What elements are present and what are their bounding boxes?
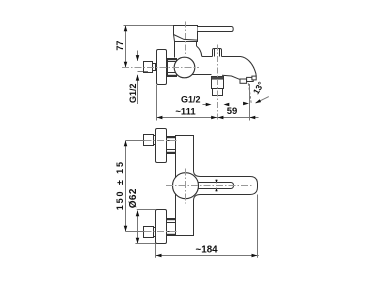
svg-text:G1/2: G1/2 <box>181 95 201 105</box>
svg-text:150 ± 15: 150 ± 15 <box>115 160 125 210</box>
svg-text:~111: ~111 <box>175 107 196 118</box>
svg-text:G1/2: G1/2 <box>128 84 138 104</box>
svg-text:59: 59 <box>227 106 238 117</box>
svg-text:Ø62: Ø62 <box>128 188 139 208</box>
svg-text:~184: ~184 <box>196 245 219 256</box>
svg-text:77: 77 <box>115 41 125 51</box>
